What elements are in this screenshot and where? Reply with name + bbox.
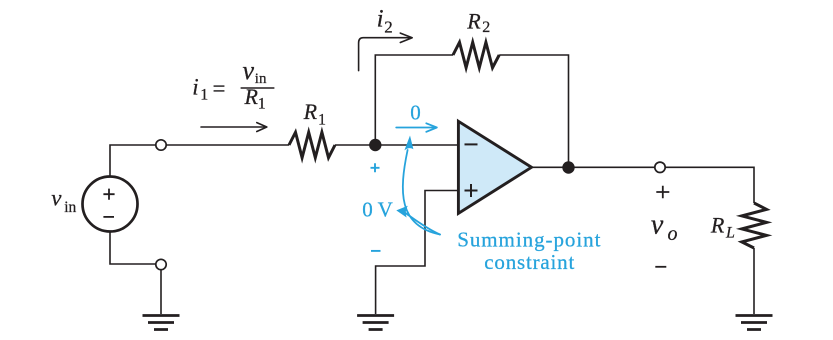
- svg-text:i: i: [192, 74, 198, 99]
- svg-text:=: =: [213, 76, 226, 101]
- svg-text:0: 0: [410, 101, 421, 125]
- svg-text:1: 1: [200, 87, 208, 104]
- svg-text:in: in: [64, 199, 76, 216]
- svg-text:v: v: [51, 186, 62, 211]
- svg-text:L: L: [725, 224, 735, 241]
- svg-text:i: i: [377, 6, 384, 33]
- svg-text:v: v: [243, 56, 255, 85]
- svg-text:2: 2: [482, 19, 490, 36]
- svg-text:R: R: [303, 99, 318, 124]
- svg-text:Summing-point: Summing-point: [457, 227, 601, 251]
- svg-text:constraint: constraint: [484, 250, 575, 274]
- svg-text:R: R: [466, 9, 481, 34]
- svg-text:R: R: [244, 84, 259, 109]
- svg-text:R: R: [710, 213, 725, 238]
- svg-text:o: o: [668, 223, 678, 245]
- svg-text:1: 1: [258, 96, 266, 113]
- svg-text:1: 1: [318, 111, 326, 128]
- svg-text:v: v: [651, 210, 664, 241]
- svg-text:0 V: 0 V: [362, 198, 393, 222]
- svg-text:2: 2: [384, 17, 393, 36]
